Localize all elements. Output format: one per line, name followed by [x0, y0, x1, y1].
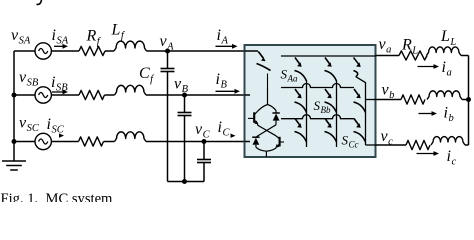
svg-text:Fig. 1. MC system: Fig. 1. MC system [1, 191, 114, 202]
